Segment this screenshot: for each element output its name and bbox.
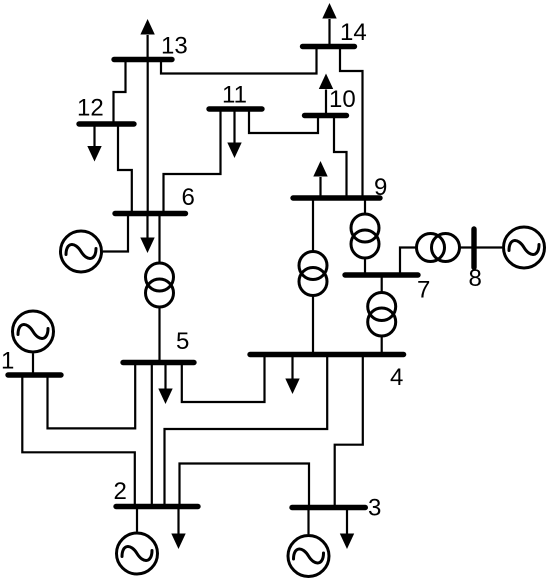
load arrow down at bus 4: [291, 355, 293, 380]
arrowhead down bus 6: [140, 238, 154, 254]
wire 7 to transformer 7-4: [381, 275, 383, 292]
wire transformer 7-4 to 4: [381, 337, 383, 355]
arrowhead down bus 11: [227, 143, 241, 159]
arrowhead up bus 9: [313, 161, 327, 177]
svg-text:1: 1: [1, 348, 14, 375]
load arrow up at bus 13: [147, 35, 149, 60]
bus 11: [209, 106, 262, 111]
load arrow down at bus 6: [146, 214, 148, 239]
load arrow up at bus 14: [328, 19, 330, 47]
wire 2-3: [180, 464, 310, 508]
wire 5-2: [151, 363, 153, 507]
svg-text:14: 14: [340, 19, 367, 46]
transformer T4-9: [299, 252, 327, 280]
svg-text:7: 7: [417, 277, 430, 304]
wire generator G1 to bus 1: [32, 354, 34, 376]
load arrow up at bus 9: [319, 177, 321, 198]
arrowhead up bus 13: [140, 19, 154, 35]
generator G3: [288, 536, 329, 577]
arrowhead down bus 4: [285, 379, 299, 395]
arrowhead down bus 2: [171, 534, 185, 550]
svg-text:3: 3: [368, 495, 381, 522]
wire 13-12: [114, 60, 126, 125]
arrowhead down bus 5: [158, 389, 172, 405]
wire 9 to transformer 4-9: [312, 198, 314, 251]
transformer T7-8: [417, 234, 445, 262]
svg-text:6: 6: [182, 184, 195, 211]
wire 10-9: [334, 116, 347, 199]
wire 1-5: [48, 363, 136, 429]
wire generator G3 to bus 3: [307, 508, 309, 535]
wire 5-4: [182, 355, 265, 403]
load arrow down at bus 2: [177, 507, 179, 535]
wire generator G2 to bus 2: [136, 507, 138, 532]
wire transformer 5-6 to 5: [158, 308, 160, 363]
svg-text:11: 11: [222, 82, 247, 109]
svg-text:9: 9: [374, 174, 387, 201]
wire transformer 4-9 to 4: [312, 297, 314, 355]
svg-text:8: 8: [469, 265, 482, 292]
generator G2: [117, 533, 158, 574]
load arrow down at bus 12: [93, 124, 95, 147]
load arrow up at bus 10: [325, 90, 327, 116]
load arrow down at bus 3: [346, 508, 348, 535]
svg-text:13: 13: [161, 33, 188, 60]
arrowhead up bus 10: [319, 74, 333, 90]
wire 11-10: [249, 109, 318, 133]
svg-text:10: 10: [329, 86, 356, 113]
svg-text:4: 4: [390, 364, 403, 391]
wire 2-4: [165, 355, 328, 507]
bus 1: [8, 372, 61, 377]
load arrow down at bus 11: [233, 109, 235, 143]
bus 8: [471, 229, 476, 268]
svg-text:5: 5: [176, 328, 189, 355]
wire 6 to transformer 5-6: [158, 214, 160, 263]
bus 6: [115, 211, 186, 216]
wire 7 to transformer 7-8: [400, 248, 416, 276]
svg-text:12: 12: [77, 95, 104, 122]
generator G8: [504, 227, 545, 268]
bus 3: [292, 505, 365, 510]
svg-text:2: 2: [114, 478, 127, 505]
wire 1-2: [22, 375, 135, 507]
wire transformer 9-7 to 7: [364, 259, 366, 275]
wire 11-6: [164, 109, 221, 214]
generator G6: [61, 231, 102, 272]
arrowhead down bus 3: [340, 534, 354, 550]
bus 7: [345, 272, 418, 277]
wire 14-9: [340, 47, 363, 199]
transformer T9-7: [351, 214, 379, 242]
arrowhead down bus 12: [87, 146, 101, 162]
generator G1: [13, 311, 54, 352]
bus 2: [116, 504, 198, 509]
bus 9: [293, 195, 380, 200]
bus 14: [303, 44, 355, 49]
wire transformer 7-8 to bus 8 and generator: [461, 246, 503, 248]
bus 12: [79, 121, 134, 126]
bus 13: [114, 57, 172, 62]
wire 12-6: [118, 124, 132, 214]
wire 13-14: [161, 47, 317, 74]
bus 4: [250, 352, 404, 357]
load arrow down at bus 5: [164, 363, 166, 390]
wire 3-4: [335, 355, 363, 508]
wire 13-6: [147, 60, 149, 214]
bus 10: [305, 113, 347, 118]
wire 9 to transformer 9-7: [364, 198, 366, 213]
bus 5: [123, 360, 194, 365]
transformer T5-6: [146, 263, 174, 291]
arrowhead up bus 14: [322, 3, 336, 19]
transformer T7-4: [368, 293, 396, 321]
wire generator G6 to bus 6: [103, 214, 128, 252]
